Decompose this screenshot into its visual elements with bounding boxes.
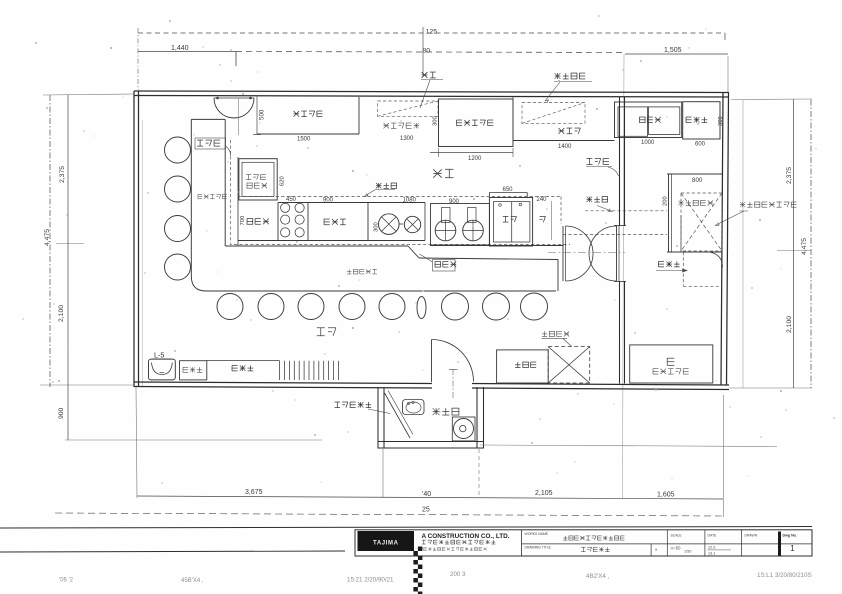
- svg-text:WORKS NAME: WORKS NAME: [525, 532, 549, 536]
- dimension line: bottom second dashed: [55, 513, 723, 516]
- svg-text:200 3: 200 3: [450, 571, 466, 578]
- equipment: wok range burner 2: [404, 216, 420, 232]
- TAJIMA logo text: [373, 540, 399, 546]
- hanging cupboard dashed outline 吊り戸棚 (above work table): [522, 103, 585, 124]
- footer text 4: [450, 571, 466, 578]
- equipment: hand wash sink L-5: [149, 359, 176, 380]
- company address scribble line 2: [424, 547, 487, 550]
- svg-text:SCALE: SCALE: [671, 534, 683, 538]
- sink basin right: [649, 107, 680, 134]
- svg-text:1200: 1200: [468, 156, 482, 162]
- equipment: shelf 棚上下引戸付 box: [630, 345, 713, 383]
- dashed line door area y=234.5: [563, 234, 667, 236]
- thick divider before dwg no: [778, 532, 781, 556]
- cell label DATE: [708, 534, 718, 538]
- stool circle bottom row #3: [298, 294, 324, 320]
- door: entrance swing (top wall): [214, 97, 254, 135]
- label: ダクト #2 with arrow: [656, 261, 687, 272]
- label: 棚: [667, 358, 674, 365]
- svg-text:1,605: 1,605: [657, 492, 675, 499]
- svg-text:DRAWING TITLE: DRAWING TITLE: [525, 546, 552, 550]
- svg-text:1500: 1500: [297, 137, 311, 143]
- label: 冷凍冷蔵庫 (right room): [678, 200, 712, 205]
- TAJIMA logo black box: [358, 531, 415, 551]
- svg-text:12.9: 12.9: [708, 546, 715, 550]
- dimension 300 rotated (middle row): [374, 222, 380, 232]
- wall: toilet bottom (double): [378, 442, 484, 449]
- dimension: door 500: [253, 96, 266, 135]
- cell label DRAWING TITLE: [525, 546, 552, 550]
- duct dashed line through partition: [585, 210, 667, 212]
- svg-text:200: 200: [663, 196, 669, 206]
- dimension 300 rotated (dishwasher): [718, 116, 724, 126]
- gas burner circles row 3: [281, 228, 305, 237]
- svg-text:A CONSTRUCTION CO., LTD.: A CONSTRUCTION CO., LTD.: [422, 533, 510, 540]
- svg-text:800: 800: [692, 177, 703, 184]
- dimension line: right inner vertical: [793, 100, 795, 389]
- checkerboard fax artifact: [413, 547, 422, 594]
- divider x=667: [666, 530, 668, 556]
- svg-text:300: 300: [433, 116, 439, 126]
- svg-text:1000: 1000: [641, 140, 655, 146]
- wall: toilet right (double): [477, 387, 484, 449]
- svg-text:A=50: A=50: [671, 546, 682, 551]
- label: 食洗機: [686, 117, 707, 123]
- extension line: x=137 bottom: [136, 387, 137, 498]
- dimension label 4,475 (right): [801, 238, 808, 255]
- dimension 620 rotated: [280, 176, 286, 186]
- equipment row top edge: [278, 202, 425, 204]
- label: 作業台 (left column): [247, 219, 269, 225]
- svg-text:1,505: 1,505: [664, 47, 682, 54]
- drawing number 1: [790, 544, 795, 553]
- equipment: gyoza 餃子 cooker outer: [489, 198, 532, 247]
- svg-text:1400: 1400: [558, 144, 572, 150]
- door jamb ticks: [614, 226, 626, 282]
- stool circle bottom row #1: [217, 294, 243, 320]
- dimension label 1,505: [664, 47, 682, 54]
- dimension line: left inner vertical: [67, 95, 69, 440]
- stock pot burner 2: [463, 220, 484, 241]
- stool circle left column #1: [165, 137, 191, 163]
- label: 下り壁 #3 boxed with leader: [420, 254, 457, 271]
- svg-text:620: 620: [280, 176, 286, 186]
- svg-text:900: 900: [449, 199, 460, 205]
- dimension label 1,605: [657, 492, 675, 499]
- dimension 200 rotated: [663, 196, 669, 206]
- separator line above title strip: [0, 527, 812, 529]
- date values: [708, 546, 732, 556]
- stool circle bottom row #8: [521, 293, 548, 320]
- dimension label 900 (left): [58, 407, 65, 419]
- extension line: bottom wall to right dims: [729, 387, 812, 389]
- dimension label 1,440: [171, 45, 189, 52]
- door: toilet entry swing: [432, 340, 474, 383]
- dimension label 800: [692, 177, 703, 184]
- gyoza small knobs: [499, 203, 522, 206]
- svg-text:3,675: 3,675: [245, 489, 263, 496]
- dimension line: top second line dashed middle: [236, 52, 625, 53]
- dimension 1200 with line: [430, 148, 513, 162]
- svg-text:2,105: 2,105: [535, 490, 553, 497]
- title block row divider: [522, 543, 813, 545]
- dimension line: overall width 7,125 (top, dashed): [138, 33, 725, 40]
- wall: right exterior (double line): [721, 93, 729, 386]
- counter: left band outer edge with rounded corner: [191, 119, 556, 291]
- drawing title scribble: [581, 547, 609, 551]
- stock pot tap 2: [468, 208, 477, 223]
- dimension 300 rotated (freezer): [433, 116, 439, 126]
- door: swing arc left leaf: [566, 226, 593, 281]
- svg-text:300: 300: [718, 116, 724, 126]
- extension line: left mid tick y=243: [56, 243, 84, 245]
- footer text 2: [181, 578, 204, 584]
- door: double swing door jamb right: [617, 226, 620, 281]
- label: コールド: [294, 111, 323, 117]
- hood dashed outline over cooking line: [238, 197, 561, 225]
- dimension line: 1,440 segment (top second line): [138, 52, 236, 67]
- svg-text:1/50: 1/50: [684, 550, 691, 554]
- stool circle bottom row #4: [339, 294, 365, 320]
- svg-text:125: 125: [426, 29, 438, 36]
- slat bench vertical lines: [280, 361, 339, 380]
- extension line: x=423 top: [422, 27, 424, 75]
- gyoza cooker top cap with ticks: [489, 193, 527, 198]
- extension line: toilet bottom to right: [480, 445, 777, 447]
- dimension label 125 (top overall width): [426, 29, 438, 36]
- svg-text:13.1: 13.1: [708, 552, 715, 556]
- extension line: x=743 right margin vertical: [742, 100, 744, 388]
- extension line: bottom wall to left dims: [40, 384, 133, 386]
- dimension label 2,100 (left): [58, 305, 65, 322]
- dimension line: bottom first: [137, 496, 723, 499]
- svg-text:DRAWN: DRAWN: [745, 534, 758, 538]
- toilet corner diagonal partition: [385, 391, 414, 439]
- label: 下り壁 (boxed, left counter): [195, 138, 231, 156]
- cell label DRAWN: [745, 534, 758, 538]
- label: 冷凍冷蔵庫 (top row): [457, 120, 494, 126]
- label: カウンター #2: [347, 269, 377, 274]
- stool circle bottom row #5: [379, 294, 405, 320]
- wall: left exterior (double line): [134, 91, 143, 387]
- dimension label 450: [286, 197, 297, 203]
- dimension label 900 (stock pot): [449, 199, 460, 205]
- freezer dashed square with X: [681, 193, 722, 251]
- stool circle bottom row #7: [483, 293, 510, 320]
- equipment: wok range burner 1: [379, 214, 400, 235]
- footer text 3: [347, 577, 394, 584]
- svg-text:500: 500: [259, 109, 266, 120]
- svg-text:2,100: 2,100: [786, 316, 793, 333]
- svg-text:4,475: 4,475: [44, 229, 51, 246]
- cell label WORKS NAME: [525, 532, 549, 536]
- dimension label 2,100 (right): [786, 316, 793, 333]
- title block border: [355, 530, 812, 556]
- line right of gyoza: [551, 201, 553, 240]
- dimension label 650: [503, 187, 514, 193]
- svg-text:'40: '40: [422, 491, 431, 498]
- title block divider after company: [521, 530, 523, 556]
- counter: top end cap: [191, 118, 225, 120]
- toilet bowl: [452, 417, 475, 441]
- door: swing arc right leaf: [589, 226, 617, 281]
- dimension label 1080: [403, 198, 417, 204]
- label: 戸棚 (hanging shelf) with leader: [420, 72, 443, 108]
- divider x=741.5: [741, 530, 743, 556]
- stool circle bottom row #6: [442, 293, 469, 320]
- label: L-5 with underline: [152, 351, 171, 360]
- svg-text:25: 25: [422, 507, 430, 514]
- svg-text:1S:L1 3/20/80/210S: 1S:L1 3/20/80/210S: [757, 572, 812, 579]
- dimension label 3,675: [245, 489, 263, 496]
- label: 冷ケース with leader: [542, 331, 572, 346]
- dimension label 80: [422, 48, 430, 55]
- door centerline mark: [449, 369, 458, 400]
- label: ダクト #1 with arrow: [587, 197, 613, 212]
- label: カウンター (left counter): [198, 194, 227, 198]
- dimension label 240: [537, 197, 548, 203]
- extension line: top wall to right dims: [731, 98, 812, 101]
- tiny mark in small cell: [655, 547, 658, 552]
- label: シンク: [640, 117, 661, 123]
- label: 木製台: [232, 365, 253, 371]
- label: フード with leader arrow: [364, 183, 396, 196]
- dimension label 25 (7,125 partial): [422, 507, 430, 514]
- svg-text:DATE: DATE: [708, 534, 718, 538]
- stool circle left column #4: [165, 254, 191, 280]
- svg-text:TAJIMA: TAJIMA: [373, 540, 399, 546]
- dimension label 1000: [641, 140, 655, 146]
- equipment: sink シンク unit: [615, 102, 682, 138]
- sink basin left: [618, 107, 648, 136]
- footer text 1: [59, 578, 74, 584]
- wooden stand shelf line: [207, 360, 280, 362]
- label: 餃子: [503, 216, 517, 222]
- equipment: dishwasher 食洗機: [683, 102, 720, 139]
- dimension label 2,375 (right): [786, 167, 793, 184]
- stool circle left column #2: [165, 176, 191, 202]
- small divider row2: [650, 544, 652, 556]
- dimension label 900 (work table): [323, 198, 334, 204]
- label: 作業台 (top row): [559, 128, 581, 134]
- equipment: water cooler 冷水器 box: [180, 361, 207, 380]
- label: 引戸付什器: [384, 123, 420, 128]
- stock pot burner 1: [435, 220, 456, 241]
- svg-text:240: 240: [537, 197, 548, 203]
- svg-text:1,440: 1,440: [171, 45, 189, 52]
- wall: kitchen partition vertical (double line, gap for swing door): [620, 97, 625, 384]
- svg-text:45B'X4 ,: 45B'X4 ,: [181, 578, 204, 584]
- scale value: [671, 546, 692, 554]
- svg-text:1080: 1080: [403, 198, 417, 204]
- label: 下り壁 #2 with curved leader: [586, 159, 619, 176]
- extension line: top wall to left dims: [43, 94, 133, 95]
- equipment: cold table コールド front edge: [257, 97, 359, 134]
- dimension label 1400: [558, 144, 572, 150]
- dimension label 2,375 (left): [59, 166, 66, 183]
- equipment: hand sink 手洗い box: [239, 159, 277, 200]
- svg-text:450: 450: [286, 197, 297, 203]
- equipment: freezer-fridge 冷凍冷蔵庫 (top row): [439, 99, 514, 147]
- dimension label 600: [695, 142, 706, 148]
- svg-text:2,100: 2,100: [58, 305, 65, 322]
- stool circle left column #3: [165, 216, 191, 242]
- svg-text:80: 80: [422, 48, 430, 55]
- company address scribble line 1: [422, 540, 495, 544]
- footer text 5: [586, 573, 609, 580]
- label: 厨房 (kitchen): [433, 169, 453, 177]
- extension line: x=723 bottom right corner: [723, 395, 725, 517]
- label: small char right of gyoza: [540, 216, 546, 222]
- extension line: x=479 bottom: [478, 449, 480, 498]
- project name scribble: [563, 536, 624, 540]
- extension line: left wall to top dims (dash-dot): [137, 28, 139, 90]
- counter: left band inner edge and front line: [225, 119, 558, 291]
- svg-text:a: a: [655, 547, 658, 552]
- wall: bottom exterior (double line, gap at toilet door): [134, 382, 729, 390]
- svg-text:4,475: 4,475: [801, 238, 808, 255]
- svg-text:1300: 1300: [400, 136, 414, 142]
- svg-text:650: 650: [503, 187, 514, 193]
- svg-text:4B2'X4 ,: 4B2'X4 ,: [586, 573, 609, 580]
- dimension label 1500: [297, 137, 311, 143]
- footer text 6: [757, 572, 812, 579]
- svg-text:600: 600: [695, 142, 706, 148]
- dimension label 4,475 (left): [44, 229, 51, 246]
- toilet hand basin: [403, 400, 425, 415]
- divider x=705: [704, 530, 706, 556]
- label: 上下引戸付: [653, 369, 689, 374]
- svg-text:L-5: L-5: [154, 351, 164, 360]
- hanging cabinet dashed outline (引戸付什器 above): [378, 101, 438, 116]
- cell label DWG NO: [783, 534, 797, 538]
- equipment row bottom edge (right part): [430, 245, 564, 247]
- kitchen left edge line: [237, 157, 239, 246]
- svg-text:15:21 2/20/90/21: 15:21 2/20/90/21: [347, 577, 394, 584]
- dash-dot line door centerline: [548, 252, 625, 254]
- equipment: gas range box: [278, 203, 308, 241]
- label: scribble inside hand sink box: [246, 174, 267, 188]
- dimension line: left outer vertical (dash-dot): [49, 95, 51, 387]
- wall: toilet left (double): [378, 387, 384, 449]
- svg-text:700: 700: [240, 216, 246, 226]
- dimension label 1300: [400, 136, 414, 142]
- wok range connector: [399, 223, 403, 225]
- gyoza cooker inner: [494, 202, 530, 242]
- equipment divider: [367, 203, 369, 241]
- label: 上部シロッコファン with leader arrow: [715, 202, 796, 226]
- wall: top exterior (double line): [134, 91, 729, 97]
- duct dashed path below freezer: [683, 252, 722, 286]
- equipment: 冷蔵台 box: [497, 350, 549, 383]
- label: 冷蔵台: [515, 362, 536, 368]
- extension line: toilet bottom level to left dims: [65, 439, 322, 441]
- label: 作業台 (middle): [324, 219, 346, 225]
- svg-text:2,375: 2,375: [786, 167, 793, 184]
- svg-text:1: 1: [790, 544, 795, 553]
- extension line: x=383 bottom: [382, 449, 384, 498]
- svg-text:Dwg No.: Dwg No.: [783, 534, 797, 538]
- cell label SCALE: [671, 534, 683, 538]
- label: 上吊り戸棚 with leader: [335, 402, 390, 413]
- dimension label 740 (partial '40): [422, 491, 431, 498]
- company name text: [422, 533, 510, 540]
- extension line: x=625 long vertical: [623, 54, 625, 498]
- decor ellipse in stool row: [417, 297, 426, 319]
- svg-text:900: 900: [323, 198, 334, 204]
- dimension 700 rotated: [240, 216, 246, 226]
- scan speckles (decorative): [22, 15, 835, 484]
- stock pot tap 1: [442, 208, 451, 223]
- svg-text:'06 '2: '06 '2: [59, 578, 74, 584]
- svg-text:2,375: 2,375: [59, 166, 66, 183]
- dimension line: 1,505 segment: [625, 53, 728, 55]
- gas burner circles row 2: [281, 215, 305, 224]
- stool circle bottom row #2: [258, 294, 284, 320]
- label: 冷水器: [183, 367, 202, 372]
- svg-text:900: 900: [58, 407, 65, 419]
- equipment: freezer 冷凍冷蔵庫 (right room) outline: [667, 174, 723, 252]
- equipment: work table 作業台 front edge (top row): [513, 97, 615, 141]
- gas burner circles row 1: [281, 203, 305, 212]
- extension line: right mid tick y=250: [777, 250, 811, 252]
- equipment right edge x=425: [424, 203, 426, 241]
- hanging wall dashed line (over counter): [231, 140, 571, 245]
- equipment: stock pot range box: [431, 204, 490, 246]
- separator line left of block: [0, 551, 345, 552]
- label: 客席 (seating): [317, 328, 336, 336]
- equipment row bottom edge (left part): [238, 240, 425, 242]
- label: トイレ: [433, 408, 459, 415]
- equipment: cold case X box: [548, 347, 590, 383]
- label: 吊り戸棚 with leader: [545, 73, 592, 103]
- door: double swing door jamb left: [563, 226, 566, 281]
- extension line: x=728 top right: [727, 56, 729, 92]
- dimension line: right outer vertical: [810, 100, 812, 389]
- dimension label 2,105: [535, 490, 553, 497]
